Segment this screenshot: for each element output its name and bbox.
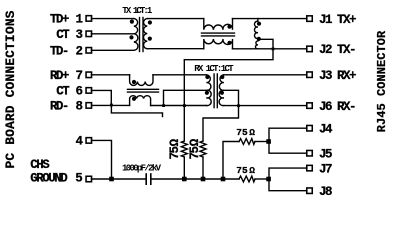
pin TD- 2 terminal square: [86, 48, 92, 54]
resistor R2 lower lead: [202, 157, 204, 179]
junction tick at R1 crossing: [183, 104, 186, 107]
jack J8 label: [319, 185, 332, 199]
choke L1 bottom dot: [227, 41, 231, 45]
right side label RJ45 CONNECTOR: [375, 30, 389, 132]
pin 4 label: [76, 135, 84, 149]
resistor R3 zigzag: [239, 139, 255, 145]
wire TD+ to T1: [91, 18, 133, 20]
common mode choke L1 top winding: [204, 19, 233, 30]
CHS GROUND label: [30, 158, 82, 186]
jack J4 label: [319, 122, 333, 136]
wire hop mark at J6 crossing: [237, 104, 240, 107]
svg-text:J2 TX-: J2 TX-: [319, 43, 355, 57]
transformer T1 primary dot lower: [129, 35, 133, 39]
wire hop mark CT6 over RD-: [110, 104, 113, 107]
chassis ground rail left: [91, 178, 146, 180]
svg-text:J6 RX-: J6 RX-: [319, 100, 355, 114]
transformer T2 primary dot upper: [205, 75, 209, 79]
svg-text:75: 75: [168, 146, 182, 159]
resistor R1 75 ohm vertical label: [168, 138, 182, 159]
common mode choke L1 bottom winding: [204, 39, 233, 49]
jack J2 label: [319, 43, 355, 57]
junction J7 J8 tie: [266, 177, 271, 182]
transformer T1 core: [139, 18, 141, 52]
wire RD- to choke L3: [91, 104, 129, 106]
svg-text:3: 3: [76, 28, 83, 42]
jack J7 label: [319, 162, 332, 176]
svg-text:2: 2: [76, 45, 83, 59]
pin 5 terminal square: [86, 176, 92, 182]
transformer T1 label TX 1CT:1: [122, 6, 153, 16]
wire L3 top to T2: [153, 74, 206, 76]
svg-text:75: 75: [236, 165, 248, 176]
pin RD- 8 label: [50, 100, 83, 114]
svg-text:1000pF/2kV: 1000pF/2kV: [122, 163, 162, 173]
junction tick on RD- line: [162, 104, 165, 107]
pin CT 6 terminal square: [86, 88, 92, 94]
transformer T1 secondary dot lower: [148, 37, 152, 41]
resistor R3 75 ohm label: [236, 127, 255, 138]
wire T2 secondary top to J3: [224, 74, 307, 76]
resistor R2 zigzag: [200, 141, 206, 157]
jack J1 label: [319, 13, 356, 27]
pin 4 terminal square: [86, 138, 92, 144]
junction R1 on rail: [182, 177, 187, 182]
resistor R4 75 ohm label: [236, 165, 255, 176]
wire TD- to T1: [91, 49, 133, 51]
svg-text:J8: J8: [319, 185, 332, 199]
jack J3 terminal square: [307, 72, 313, 78]
wire L2 center tap to resistor R1: [184, 39, 273, 141]
svg-text:GROUND: GROUND: [30, 172, 68, 186]
common mode choke L1 core: [202, 32, 235, 34]
svg-text:5: 5: [75, 172, 82, 186]
svg-text:RD+: RD+: [50, 69, 69, 83]
pin TD+ 1 terminal square: [86, 16, 92, 22]
resistor R1 zigzag: [181, 141, 187, 157]
transformer T2 label RX 1CT:1CT: [194, 64, 234, 74]
resistor R2 75 ohm vertical label: [188, 138, 202, 159]
transformer T1 secondary dot upper: [148, 20, 152, 24]
svg-text:J7: J7: [319, 162, 332, 176]
wire T1 secondary top to choke L1: [147, 18, 204, 20]
choke L3 top dot: [132, 80, 136, 84]
svg-text:J3 RX+: J3 RX+: [319, 69, 356, 83]
wire CT6: [91, 90, 111, 104]
svg-text:RJ45 CONNECTOR: RJ45 CONNECTOR: [375, 30, 389, 132]
svg-text:8: 8: [76, 100, 83, 114]
transformer T2 primary winding: [206, 75, 211, 106]
wire T2 secondary center tap to resistor R2: [203, 90, 239, 141]
svg-text:J1 TX+: J1 TX+: [319, 13, 356, 27]
svg-text:TD+: TD+: [50, 13, 69, 27]
svg-text:J4: J4: [319, 122, 333, 136]
wire bracket J4 J5: [269, 128, 307, 153]
wire stub below RD- line: [111, 105, 162, 116]
jack J5 terminal square: [307, 150, 313, 156]
svg-text:TD-: TD-: [50, 45, 68, 59]
svg-text:CT: CT: [56, 85, 70, 99]
svg-text:J5: J5: [319, 147, 332, 161]
chassis ground rail right: [151, 178, 239, 180]
wire pin4 to chassis rail: [91, 140, 111, 179]
pin CT 3 terminal square: [86, 31, 92, 37]
svg-text:CHS: CHS: [30, 158, 50, 172]
transformer T2 primary dot lower: [205, 91, 209, 95]
junction R3 on rail: [221, 177, 226, 182]
junction R2 on rail: [201, 177, 206, 182]
common mode choke L3 core: [128, 88, 159, 90]
capacitor C1 plates: [145, 174, 147, 184]
resistor R1 lower lead: [183, 157, 185, 179]
left side label PC BOARD CONNECTIONS: [3, 10, 18, 168]
jack J1 terminal square: [307, 16, 313, 22]
resistor R4 zigzag: [239, 176, 255, 182]
wire L1 to J2: [233, 48, 307, 50]
svg-text:1: 1: [76, 13, 83, 27]
svg-text:Ω: Ω: [249, 127, 255, 138]
svg-text:6: 6: [76, 85, 83, 99]
jack J6 terminal square: [307, 103, 313, 109]
svg-text:TX 1CT:1: TX 1CT:1: [122, 6, 153, 16]
wire T2 secondary bottom to J6: [224, 105, 307, 107]
pin RD+ 7 terminal square: [86, 72, 92, 78]
autotransformer L2 winding across TX pair: [254, 19, 257, 49]
pin TD+ 1 label: [50, 13, 83, 27]
junction J4 J5 tie: [266, 139, 271, 144]
pin TD- 2 label: [50, 45, 83, 59]
wire hop mark at J2 crossing: [272, 48, 275, 51]
svg-text:7: 7: [76, 69, 83, 83]
jack J8 terminal square: [307, 188, 313, 194]
wire bracket J7 J8: [269, 168, 307, 191]
svg-text:Ω: Ω: [249, 165, 255, 176]
transformer T2 core: [213, 74, 215, 108]
autotransformer L2 dot center tap: [257, 37, 261, 41]
capacitor C1 label 1000pF/2kV: [122, 163, 162, 173]
jack J7 terminal square: [307, 165, 313, 171]
wire L3 bottom to T2: [151, 105, 207, 107]
jack J6 label: [319, 100, 355, 114]
jack J2 terminal square: [307, 46, 313, 52]
transformer T2 secondary winding: [219, 75, 224, 106]
transformer T1 primary dot upper: [130, 20, 134, 24]
transformer T1 secondary winding: [143, 19, 147, 49]
junction pin4 on rail: [109, 177, 114, 182]
pin CT 6 label: [56, 85, 82, 99]
wire riser to T2 primary center tap: [164, 90, 207, 105]
resistor R3 link from rail: [223, 142, 239, 180]
transformer T2 secondary dot lower: [220, 91, 224, 95]
choke L3 bottom dot: [132, 97, 136, 101]
autotransformer L2 dot upper: [257, 22, 261, 26]
jack J5 label: [319, 147, 332, 161]
transformer T1 primary winding: [134, 19, 138, 51]
svg-text:RX 1CT:1CT: RX 1CT:1CT: [194, 64, 234, 74]
pin CT 3 label: [56, 28, 82, 42]
common mode choke L3 top winding: [130, 75, 153, 86]
wire CT3 to T1 center tap: [91, 33, 133, 35]
wire RD+ to choke L3: [91, 74, 129, 76]
pin RD- 8 terminal square: [86, 103, 92, 109]
jack J3 label: [319, 69, 356, 83]
wire T1 secondary bottom to choke L1: [147, 48, 204, 50]
jack J4 terminal square: [307, 125, 313, 131]
common mode choke L3 bottom winding: [130, 96, 151, 106]
svg-text:CT: CT: [56, 28, 70, 42]
svg-text:75: 75: [236, 127, 248, 138]
svg-text:PC BOARD CONNECTIONS: PC BOARD CONNECTIONS: [3, 10, 18, 168]
svg-text:75: 75: [188, 146, 202, 159]
svg-text:RD-: RD-: [50, 100, 68, 114]
transformer T2 secondary dot upper: [220, 75, 224, 79]
pin RD+ 7 label: [50, 69, 83, 83]
wire R3 to J4 J5 junction: [255, 141, 269, 143]
wire L1 to J1: [233, 18, 307, 20]
choke L1 top dot: [227, 25, 231, 29]
